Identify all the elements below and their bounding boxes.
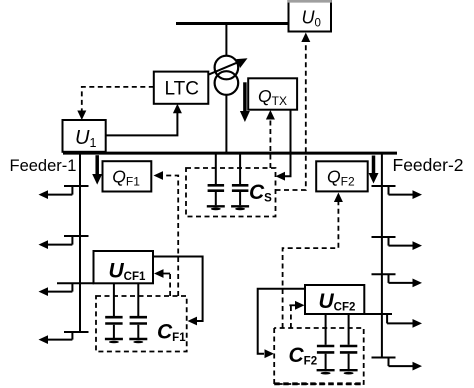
capacitor CS-b	[232, 185, 249, 205]
dashed control line CS to U0	[276, 33, 311, 191]
box QF2	[316, 161, 368, 191]
wire UCF1 to CF1 capacitor 1	[113, 283, 115, 316]
ground CF2-a	[317, 370, 335, 374]
wire UCF2 to CF2 capacitor 1	[325, 314, 327, 345]
capacitor bank CF1 dashed enclosure	[96, 296, 187, 352]
dashed control line CS to QTX	[266, 110, 275, 168]
wire QTX to CS with arrow	[276, 110, 291, 181]
feeder-1 lateral tap 3 (shares UCF1 bottom node)	[39, 283, 95, 296]
feeder-2 lateral tap 3	[372, 274, 423, 287]
feeder-2 lateral tap 4 (shares UCF2 bottom node)	[364, 314, 422, 328]
wire UCF1 to CF1 capacitor 2	[137, 283, 139, 316]
capacitor CS-a	[208, 185, 225, 205]
wire U1 to LTC with arrow	[106, 104, 182, 136]
box QTX	[248, 78, 297, 109]
transformer T1 winding 1	[215, 56, 239, 95]
feeder-1 lateral tap 1	[39, 186, 89, 199]
svg-text:Feeder-2: Feeder-2	[393, 155, 464, 175]
dashed control line CF2 to UCF2	[289, 301, 304, 328]
svg-text:LTC: LTC	[165, 79, 199, 100]
tap-changer arrow across transformer	[208, 58, 248, 75]
box U1	[63, 120, 106, 152]
ground CF2-b	[340, 370, 358, 374]
feeder-2 lateral tap 2	[372, 237, 423, 250]
wire UCF2 to CF2 with arrow	[258, 289, 305, 358]
ground CS-b	[231, 206, 249, 210]
dashed control line CF1 to QF1	[154, 171, 179, 296]
wire UCF1 to CF1 with arrow	[153, 257, 203, 326]
dashed control line CF1 to UCF1	[154, 269, 170, 296]
capacitor CF2-a	[317, 346, 334, 369]
feeder-2 lateral tap 1	[372, 186, 423, 199]
bus LV (substation secondary bus)	[63, 152, 397, 155]
dashed control line CF2 to QF2	[283, 193, 343, 329]
wire UCF2 to CF2 capacitor 2	[348, 314, 350, 345]
capacitor CF1-a	[105, 317, 122, 338]
ground CS-a	[207, 206, 225, 210]
wire HV bus to transformer to LV bus	[225, 25, 227, 152]
box U0	[287, 1, 332, 32]
ground CF1-b	[129, 339, 147, 343]
wire feeder-2 trunk	[381, 155, 383, 359]
box UCF1	[94, 251, 154, 283]
box QF1	[103, 161, 152, 191]
wire bus to CS capacitor 1	[215, 155, 217, 185]
capacitor bank CF2 dashed enclosure	[274, 328, 364, 384]
ground CF1-a	[105, 339, 123, 343]
capacitor CF1-b	[130, 317, 147, 338]
wire bus to CS capacitor 2	[239, 155, 241, 185]
feeder-2 lateral tap 5	[372, 358, 423, 371]
feeder-1 lateral tap 2	[39, 236, 89, 249]
capacitor CF2-b	[340, 346, 357, 369]
capacitor bank CS dashed enclosure	[186, 168, 276, 217]
bold power-flow arrow feeder-2 head	[369, 156, 379, 184]
transformer T1 winding 2	[215, 71, 239, 95]
svg-text:Feeder-1: Feeder-1	[10, 157, 77, 175]
dashed control line LTC to U1	[77, 87, 154, 120]
bus HV (top bus)	[176, 22, 289, 25]
bold power-flow arrow into transformer branch	[240, 82, 250, 122]
bold power-flow arrow feeder-1 head	[92, 155, 102, 184]
feeder-1 lateral tap 4	[39, 332, 89, 344]
box LTC	[154, 72, 209, 104]
wire feeder-1 trunk	[79, 155, 81, 333]
box UCF2	[305, 285, 364, 314]
